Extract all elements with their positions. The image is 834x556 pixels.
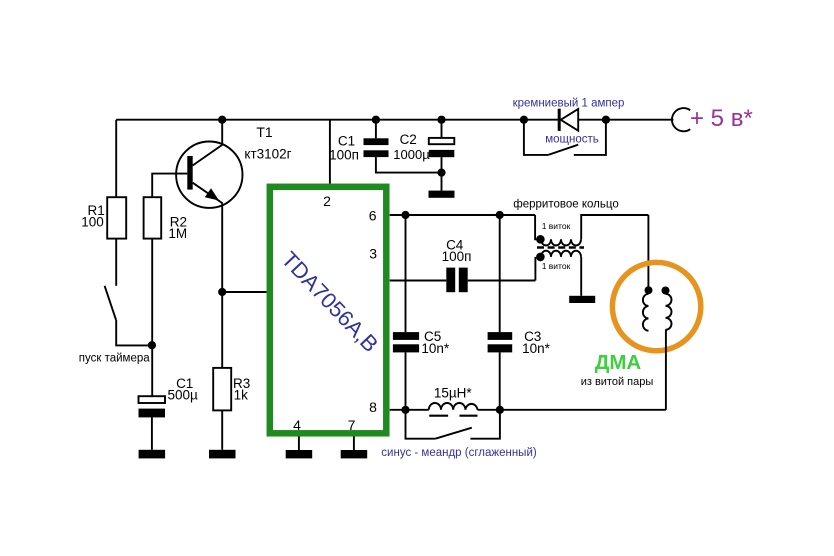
- antenna ДМА loop: [581, 262, 701, 409]
- svg-text:кремниевый 1 ампер: кремниевый 1 ампер: [513, 98, 625, 110]
- svg-text:4: 4: [293, 417, 301, 433]
- resistor R2: [144, 197, 188, 241]
- ground under R3: [209, 450, 236, 459]
- wire top power rail: [116, 119, 673, 121]
- switch мощность: [524, 120, 606, 155]
- svg-text:2: 2: [323, 193, 331, 209]
- capacitor C1 500u electrolytic: [139, 376, 198, 450]
- wire emitter down to R3: [221, 203, 223, 368]
- node secondary dot: [536, 253, 545, 262]
- wire pin6 net down to primary: [535, 215, 541, 239]
- winding secondary 1 виток: [541, 251, 581, 257]
- svg-text:1 виток: 1 виток: [542, 261, 571, 271]
- svg-text:15µH*: 15µH*: [434, 385, 473, 400]
- svg-text:мощность: мощность: [545, 134, 599, 146]
- wire R2 bottom through node to C1: [151, 239, 153, 396]
- wire primary right up and across: [581, 215, 648, 239]
- svg-text:1k: 1k: [234, 387, 249, 402]
- capacitor C3: [488, 215, 551, 410]
- wire secondary right down to ground: [580, 257, 582, 296]
- wire pin2 to rail: [329, 120, 331, 184]
- capacitor C1 100n: [329, 120, 388, 163]
- svg-text:кт3102г: кт3102г: [244, 146, 291, 161]
- svg-text:100п: 100п: [329, 148, 359, 163]
- node pin6 / C3 junction: [496, 211, 504, 219]
- wire left drop to R1: [115, 120, 117, 198]
- wire pin4 stub: [298, 437, 300, 451]
- wire secondary left down to pin3 net: [534, 257, 536, 281]
- svg-text:100п: 100п: [442, 249, 472, 264]
- svg-text:ДМА: ДМА: [595, 351, 642, 374]
- svg-text:500µ: 500µ: [167, 387, 198, 402]
- svg-text:из витой пары: из витой пары: [581, 376, 654, 388]
- svg-text:C1: C1: [338, 133, 355, 148]
- op-amp U1 TDA7056 box: [270, 187, 387, 433]
- ground under C1 500u: [139, 450, 166, 459]
- svg-text:100: 100: [81, 214, 104, 229]
- wire pin6 net: [390, 214, 535, 216]
- node C3 bottom junction: [496, 406, 504, 414]
- resistor R3: [213, 368, 250, 450]
- ground under pin4: [286, 450, 313, 458]
- transistor Q T1: [176, 120, 292, 208]
- svg-text:ферритовое кольцо: ферритовое кольцо: [513, 198, 618, 210]
- svg-text:10n*: 10n*: [421, 341, 450, 356]
- capacitor C4: [442, 237, 472, 292]
- wire pin8 to node: [390, 409, 429, 411]
- resistor R1: [81, 197, 126, 238]
- coil DMA right: [666, 294, 672, 330]
- svg-text:T1: T1: [256, 124, 273, 140]
- svg-text:синус - меандр (сглаженный): синус - меандр (сглаженный): [381, 447, 537, 459]
- node DMA right dot: [662, 287, 670, 295]
- capacitor C2 1000u electrolytic: [393, 120, 454, 191]
- svg-text:1 виток: 1 виток: [542, 221, 571, 231]
- switch синус-меандр: [381, 410, 537, 459]
- svg-text:8: 8: [369, 399, 377, 415]
- svg-text:C2: C2: [400, 132, 417, 147]
- node collector rail junction: [218, 116, 226, 124]
- ground under transformer: [569, 296, 595, 303]
- diode кремниевый 1 ампер: [513, 98, 625, 131]
- node primary dot: [536, 235, 545, 244]
- wire DMA right coil down: [665, 330, 667, 410]
- wire bottom rail to DMA: [478, 409, 666, 411]
- node emitter / pin5 junction: [218, 288, 226, 296]
- connector +5V socket: [672, 108, 690, 131]
- node C2 ground junction: [437, 169, 445, 177]
- wire R2 top to base: [152, 174, 187, 198]
- svg-text:1000µ: 1000µ: [393, 147, 430, 162]
- svg-text:10n*: 10n*: [522, 341, 551, 356]
- node C2 rail junction: [437, 116, 445, 124]
- inductor L 15uH: [429, 385, 478, 415]
- svg-text:пуск таймера: пуск таймера: [79, 352, 150, 364]
- switch пуск таймера: [79, 239, 152, 365]
- coil DMA left: [643, 294, 649, 331]
- core dashes: [537, 246, 584, 248]
- wire C1 bottom to C2 node: [376, 157, 442, 173]
- svg-text:+ 5 в*: + 5 в*: [690, 105, 753, 132]
- node DMA left dot: [645, 286, 653, 294]
- wire node to IC left pin: [222, 291, 266, 293]
- svg-text:3: 3: [369, 245, 377, 261]
- svg-text:1M: 1M: [168, 226, 187, 241]
- wire transformer to DMA coil: [647, 215, 649, 288]
- capacitor C5: [393, 215, 450, 410]
- svg-text:6: 6: [369, 208, 377, 224]
- node diode cathode-side junction: [602, 116, 610, 124]
- node pin8 / C5 bottom junction: [401, 406, 409, 414]
- winding primary 1 виток: [541, 239, 581, 245]
- wire pin3 net right segment: [468, 280, 536, 282]
- wire pin7 stub: [353, 437, 355, 451]
- node switch / R2 / C1 junction: [148, 341, 156, 349]
- node C1 rail junction: [372, 116, 380, 124]
- ground under pin7: [341, 450, 368, 458]
- wire pin3 net left segment: [390, 280, 447, 282]
- node pin6 / C5 junction: [401, 211, 409, 219]
- ground under C2: [429, 191, 455, 198]
- transformer ферритовое кольцо: [513, 198, 648, 295]
- svg-text:7: 7: [348, 417, 356, 433]
- node diode anode-side junction: [520, 116, 528, 124]
